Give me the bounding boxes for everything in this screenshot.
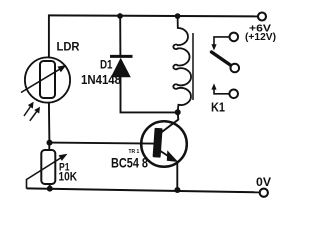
LDR arrow [21, 68, 62, 93]
terminal +6V [258, 13, 266, 21]
terminal 0V [260, 189, 268, 197]
svg-text:10K: 10K [59, 170, 78, 184]
LDR light arrow right [30, 110, 38, 121]
node emitter bottom [174, 187, 180, 193]
wire LDR branch top [48, 15, 50, 58]
wire diode bottom [121, 76, 179, 112]
relay contact K1 middle circle [231, 64, 240, 73]
node top coil junction [175, 13, 181, 19]
relay core line [192, 33, 194, 100]
relay coil [173, 16, 191, 112]
relay contact K1 top circle [230, 33, 239, 42]
wire collector [161, 112, 179, 133]
svg-text:LDR: LDR [57, 41, 81, 53]
node base junction [47, 140, 53, 146]
svg-text:BC54 8: BC54 8 [111, 156, 148, 171]
wire bottom rail [27, 188, 260, 192]
LDR circle [25, 57, 70, 102]
svg-text:TR 1: TR 1 [129, 149, 140, 155]
wire diode branch top [119, 16, 121, 56]
wire P1 bottom [49, 184, 51, 189]
diode D1 cathode bar [110, 55, 133, 58]
node top diode junction [117, 13, 123, 19]
wire K1 lower lead [214, 89, 229, 94]
K1 lower arrow head [211, 83, 216, 89]
svg-text:1N4148: 1N4148 [81, 73, 121, 87]
wire top rail [48, 15, 258, 16]
LDR resistor body [40, 61, 55, 98]
node collector junction [175, 109, 181, 115]
transistor Q1 circle [141, 121, 187, 167]
wire K1 top lead [214, 37, 230, 46]
transistor Q1 emitter [158, 150, 172, 159]
LDR light arrow left [24, 105, 32, 116]
wire junction to P1 [48, 143, 50, 151]
svg-text:(+12V): (+12V) [245, 32, 276, 43]
wire P1 wiper tail [26, 179, 28, 189]
potentiometer P1 arrow [27, 157, 64, 180]
svg-text:K1: K1 [211, 100, 225, 114]
wire emitter down [176, 162, 178, 190]
wire LDR bottom [48, 102, 51, 143]
diode D1 triangle [111, 58, 131, 77]
svg-text:0V: 0V [256, 177, 271, 189]
node P1 bottom [47, 186, 53, 192]
svg-text:D1: D1 [100, 60, 113, 72]
K1 top arrow head [211, 44, 216, 50]
potentiometer P1 body [41, 150, 55, 184]
K1 switch arm [212, 52, 232, 66]
transistor Q1 base bar [153, 128, 163, 158]
wire base [50, 143, 154, 144]
relay contact K1 bottom circle [229, 90, 238, 99]
transistor Q1 emitter arrow head [167, 150, 178, 162]
